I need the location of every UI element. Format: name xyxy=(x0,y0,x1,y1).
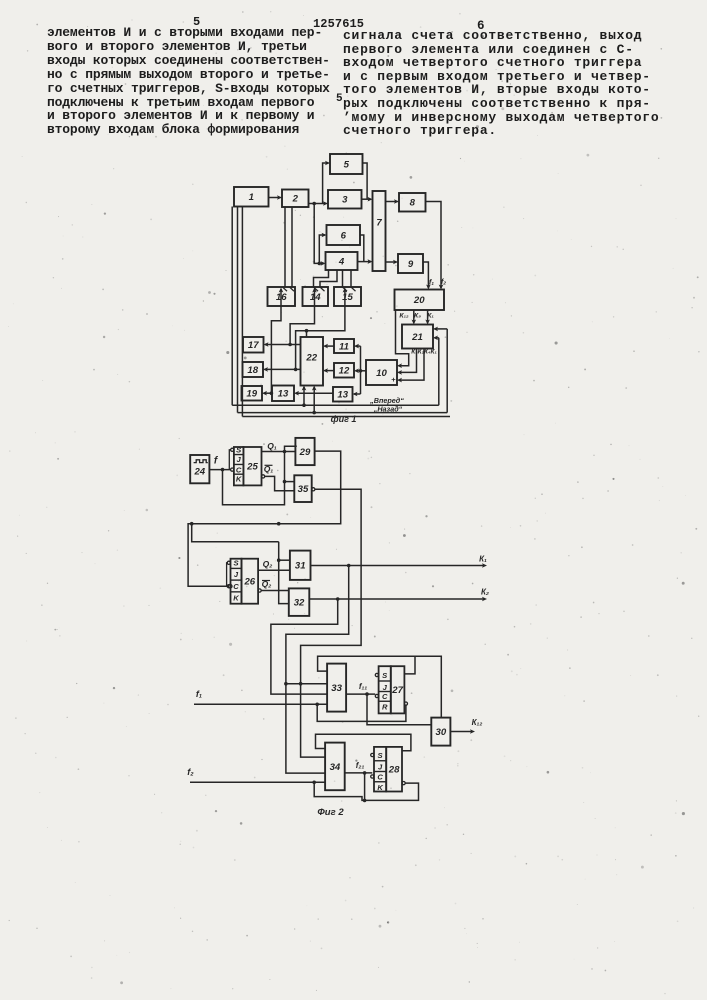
svg-text:f₁: f₁ xyxy=(196,689,202,699)
svg-text:C: C xyxy=(236,465,242,474)
svg-text:f₁₁: f₁₁ xyxy=(359,682,367,691)
svg-text:31: 31 xyxy=(295,561,306,572)
svg-text:фиг 1: фиг 1 xyxy=(331,414,357,424)
svg-text:f₂: f₂ xyxy=(187,767,194,777)
svg-text:S: S xyxy=(233,559,238,568)
svg-text:C: C xyxy=(382,692,388,701)
svg-text:S: S xyxy=(236,446,241,455)
svg-text:34: 34 xyxy=(330,762,341,773)
svg-text:Q₁: Q₁ xyxy=(267,441,277,451)
svg-text:Фиг 2: Фиг 2 xyxy=(317,807,344,818)
svg-text:19: 19 xyxy=(246,389,257,400)
svg-text:K: K xyxy=(377,783,383,792)
svg-text:14: 14 xyxy=(310,292,321,303)
svg-text:J: J xyxy=(234,570,239,579)
svg-text:К₈: К₈ xyxy=(414,313,421,320)
svg-text:f₁: f₁ xyxy=(429,278,434,287)
svg-text:13: 13 xyxy=(337,390,348,401)
svg-text:33: 33 xyxy=(331,683,342,694)
svg-text:21: 21 xyxy=(411,332,423,343)
svg-text:Q₂: Q₂ xyxy=(263,559,274,569)
svg-text:27: 27 xyxy=(391,685,403,696)
svg-text:8: 8 xyxy=(410,198,416,209)
svg-text:6: 6 xyxy=(341,230,347,241)
svg-text:20: 20 xyxy=(413,295,425,306)
svg-text:J: J xyxy=(383,683,388,692)
svg-text:R: R xyxy=(382,702,388,711)
svg-text:3: 3 xyxy=(342,195,348,206)
svg-text:35: 35 xyxy=(298,484,309,495)
svg-text:2: 2 xyxy=(292,194,299,205)
svg-text:29: 29 xyxy=(299,447,311,458)
svg-text:32: 32 xyxy=(294,598,305,609)
svg-text:J: J xyxy=(378,762,383,771)
svg-text:K: K xyxy=(236,475,242,484)
svg-text:11: 11 xyxy=(339,341,349,352)
svg-text:15: 15 xyxy=(342,292,353,303)
svg-text:+: + xyxy=(391,375,396,384)
svg-text:24: 24 xyxy=(193,467,205,478)
svg-text:7: 7 xyxy=(376,217,382,228)
svg-text:К₁₂: К₁₂ xyxy=(472,718,483,727)
svg-text:22: 22 xyxy=(305,353,317,364)
svg-text:26: 26 xyxy=(243,577,255,588)
svg-text:C: C xyxy=(233,582,239,591)
svg-text:S: S xyxy=(382,671,387,680)
svg-text:C: C xyxy=(377,772,383,781)
svg-text:12: 12 xyxy=(339,366,350,377)
svg-text:9: 9 xyxy=(408,259,414,270)
svg-text:4: 4 xyxy=(338,256,345,267)
svg-text:5: 5 xyxy=(344,159,350,170)
svg-text:К₁₂: К₁₂ xyxy=(399,313,409,320)
svg-text:J: J xyxy=(237,455,242,464)
svg-text:К₁: К₁ xyxy=(479,555,487,564)
svg-text:f₂: f₂ xyxy=(441,277,446,286)
svg-text:25: 25 xyxy=(246,462,258,473)
svg-text:К₁: К₁ xyxy=(427,313,434,320)
svg-text:K: K xyxy=(233,593,239,602)
svg-text:К₂: К₂ xyxy=(481,588,489,597)
svg-text:28: 28 xyxy=(388,765,400,776)
svg-text:30: 30 xyxy=(436,727,447,738)
svg-text:17: 17 xyxy=(248,340,259,351)
svg-text:S: S xyxy=(378,751,383,760)
svg-text:10: 10 xyxy=(376,368,387,379)
svg-text:„Назад“: „Назад“ xyxy=(373,404,403,413)
svg-text:К₃К₂К₄К₁: К₃К₂К₄К₁ xyxy=(411,349,436,356)
svg-text:13: 13 xyxy=(278,389,289,400)
svg-text:18: 18 xyxy=(247,365,258,376)
svg-text:f₂₁: f₂₁ xyxy=(356,761,365,770)
svg-text:1: 1 xyxy=(249,192,254,203)
svg-text:f: f xyxy=(214,456,219,467)
